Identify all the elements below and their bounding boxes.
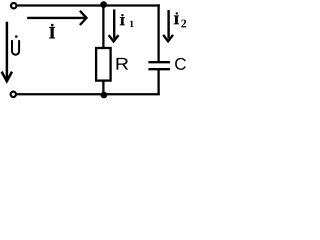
terminal (top-left) xyxy=(11,3,16,8)
capacitor C bottom plate xyxy=(148,68,170,70)
voltage arrow U (left, pointing down) xyxy=(2,22,12,81)
wire capacitor branch lower xyxy=(157,69,159,94)
label R xyxy=(117,58,129,70)
label C xyxy=(175,58,186,70)
label I2 (phasor dot) xyxy=(174,12,186,27)
label I1 (phasor dot) xyxy=(120,14,134,27)
resistor R body xyxy=(96,48,111,81)
label I (phasor dot) xyxy=(49,24,55,39)
current arrow I1 xyxy=(109,9,119,41)
current arrow I (top) xyxy=(27,11,86,25)
node junction dot top xyxy=(100,1,107,8)
wire capacitor branch upper xyxy=(157,4,159,61)
wire bottom horizontal xyxy=(17,93,160,95)
wire resistor branch upper xyxy=(102,6,104,48)
wire resistor branch lower xyxy=(102,81,104,95)
terminal (bottom-left) xyxy=(11,92,16,97)
node junction dot bottom xyxy=(101,92,108,99)
label U (phasor dot) xyxy=(12,35,19,55)
current arrow I2 xyxy=(163,10,173,41)
wire top horizontal xyxy=(17,4,160,6)
capacitor C top plate xyxy=(148,61,170,63)
